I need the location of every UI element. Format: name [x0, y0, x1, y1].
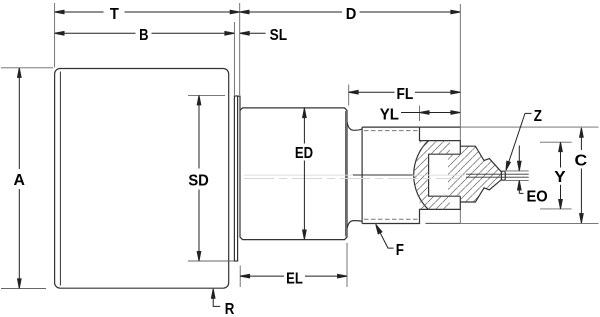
svg-text:C: C [575, 153, 588, 170]
svg-text:Y: Y [554, 169, 566, 186]
svg-text:FL: FL [397, 86, 414, 103]
svg-text:ED: ED [295, 145, 313, 162]
svg-text:D: D [346, 6, 357, 23]
svg-text:R: R [225, 301, 235, 317]
svg-text:EL: EL [286, 270, 303, 287]
svg-text:F: F [396, 242, 404, 259]
svg-text:SL: SL [270, 27, 288, 44]
svg-text:B: B [139, 27, 148, 44]
svg-text:T: T [110, 6, 119, 23]
svg-text:EO: EO [527, 188, 548, 205]
svg-text:A: A [14, 172, 26, 189]
svg-text:Z: Z [534, 108, 542, 125]
svg-text:SD: SD [188, 172, 209, 189]
svg-text:YL: YL [380, 106, 399, 123]
